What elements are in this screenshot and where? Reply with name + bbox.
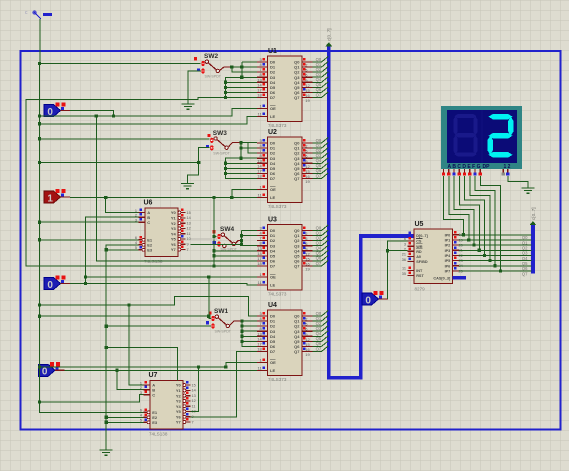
svg-text:0: 0 <box>42 367 48 378</box>
display inner <box>447 110 517 163</box>
U1 pin 1 OE <box>257 108 268 110</box>
wire U1 Q3 to bus <box>313 76 322 78</box>
svg-text:11: 11 <box>192 404 196 408</box>
U5 left pin CS <box>408 240 415 242</box>
7-segment display frame <box>441 106 522 169</box>
bus right of U5 vertical <box>531 225 535 274</box>
svg-text:19: 19 <box>305 179 310 184</box>
U1 pin 8 D3 <box>257 76 268 78</box>
svg-text:19: 19 <box>305 267 310 272</box>
wire to U7 A <box>129 305 144 385</box>
wire U5 IP3 row to bus <box>459 249 532 251</box>
probe pin <box>379 298 389 300</box>
U2 pin 6 Q2 <box>302 152 313 154</box>
svg-text:IP5: IP5 <box>445 259 451 263</box>
svg-text:15: 15 <box>192 383 196 387</box>
svg-text:SF/BD: SF/BD <box>416 260 428 264</box>
U2 pin 16 Q6 <box>302 172 313 174</box>
ground below SW2 <box>182 104 195 109</box>
U6 pin 10 Y5 <box>178 238 181 241</box>
svg-text:Y3: Y3 <box>171 226 177 231</box>
U6 pin 4 E2 <box>139 244 143 246</box>
U1 pin 5 Q1 <box>302 66 313 68</box>
trunk T3 down to U3 row17 <box>96 116 257 261</box>
switch SW4 common wire <box>236 241 242 244</box>
U4 pin 5 Q1 <box>302 320 313 322</box>
display pin E <box>464 169 466 172</box>
display pin B <box>448 169 450 172</box>
svg-text:Q7: Q7 <box>316 92 322 97</box>
U6 pin 3 C <box>139 221 146 223</box>
svg-text:CAS[0..3]: CAS[0..3] <box>433 277 451 281</box>
wire U5 IP5 row to bus <box>459 260 532 262</box>
wire T4 to U6 E3 <box>106 249 138 251</box>
U2 pin 2 Q0 <box>302 142 313 144</box>
wire SW3 net to U2 pins <box>241 142 257 144</box>
U7 pin 5 E3 <box>144 421 148 423</box>
display pin C <box>453 169 455 172</box>
wire U4 Q1 to bus <box>313 320 322 322</box>
svg-text:74LS138: 74LS138 <box>149 432 168 437</box>
wire T1 to SW3 throw <box>40 138 210 140</box>
svg-text:c[0..7]: c[0..7] <box>327 28 332 41</box>
U4 pin 9 Q3 <box>302 330 313 332</box>
wire long enable line to U4 OE <box>40 366 226 368</box>
U3 pin 15 Q5 <box>302 255 313 257</box>
svg-text:E3: E3 <box>152 420 158 425</box>
U3 pin 19 Q7 <box>302 265 313 267</box>
svg-text:OE: OE <box>270 106 276 111</box>
svg-text:C: C <box>147 220 150 225</box>
U4 pin 12 Q4 <box>302 335 313 337</box>
svg-text:LE: LE <box>270 195 275 200</box>
U7 pin 11 Y4 <box>183 405 186 408</box>
IC U4 74LS373 body <box>268 310 303 376</box>
U1 pin 9 Q3 <box>302 76 313 78</box>
wire T1 to U7 C <box>40 395 144 402</box>
U7 pin 13 Y2 <box>183 394 186 397</box>
svg-text:Y4: Y4 <box>171 231 177 236</box>
wire U2 Q1 to bus <box>313 147 322 149</box>
svg-text:74LS373: 74LS373 <box>268 123 287 128</box>
U6 pin 6 E1 <box>139 239 143 241</box>
svg-text:74LS373: 74LS373 <box>268 291 287 296</box>
bus arrow top <box>325 42 332 46</box>
U5 left pin WR <box>408 245 415 247</box>
U5 left pin INT <box>408 269 415 271</box>
wire U3 Q1 to bus <box>313 235 322 237</box>
wire display seg 2 staircase to U5 IP2 <box>454 176 474 245</box>
U3 pin 14 D5 <box>257 255 268 257</box>
U5 left pin SF/BD <box>408 261 415 263</box>
svg-text:74LS373: 74LS373 <box>268 204 287 209</box>
U7 pin 6 E1 <box>144 411 148 413</box>
wire riser to SW1 throw <box>209 277 211 318</box>
U2 pin 15 Q5 <box>302 167 313 169</box>
display pin A <box>443 169 445 172</box>
U2 pin 11 LE <box>257 197 268 199</box>
IC U3 74LS373 body <box>268 225 303 291</box>
SW4 lower throw terminal <box>223 244 226 247</box>
U6 pin 1 A <box>139 212 146 214</box>
logic state probe 1 <box>44 191 61 203</box>
U1 pin 17 D6 <box>257 91 268 93</box>
U2 pin 8 D3 <box>257 157 268 159</box>
svg-text:18: 18 <box>257 346 262 351</box>
U6 pin 14 Y1 <box>178 216 181 219</box>
wire display seg 6 staircase to U5 IP6 <box>475 176 495 266</box>
IC U6 74LS138 body <box>145 208 178 257</box>
display right digit lit 2 <box>489 114 513 119</box>
U2 pin 3 D0 <box>257 142 268 144</box>
svg-text:7: 7 <box>187 248 189 252</box>
U3 pin 4 D1 <box>257 235 268 237</box>
display pin D <box>458 169 460 172</box>
U3 pin 12 Q4 <box>302 250 313 252</box>
wire U2 Q3 to bus <box>313 157 322 159</box>
wire U1 Q5 to bus <box>313 86 322 88</box>
svg-text:IP6: IP6 <box>445 264 451 268</box>
wire U2 Q4 to bus <box>313 162 322 164</box>
U4 pin 2 Q0 <box>302 315 313 317</box>
U7 pin 4 E2 <box>144 416 148 418</box>
svg-text:Q7: Q7 <box>294 95 300 100</box>
U2 pin 5 Q1 <box>302 147 313 149</box>
svg-text:OE: OE <box>270 187 276 192</box>
wire U5 IP6 row to bus <box>459 265 532 267</box>
logic state probe 0 <box>362 293 379 305</box>
svg-text:U6: U6 <box>144 200 153 207</box>
svg-text:7: 7 <box>192 420 194 424</box>
wire SW2 net to U1 pins <box>232 66 257 68</box>
U5 right pin IP3 <box>453 249 460 251</box>
svg-text:RD: RD <box>416 250 422 254</box>
wire probe4 branch to U7 B <box>117 370 144 389</box>
svg-text:19: 19 <box>305 98 310 103</box>
U5 right pin IP4 <box>453 254 460 256</box>
U3 pin 8 D3 <box>257 245 268 247</box>
U3 pin 13 D4 <box>257 250 268 252</box>
wire U1 Q1 to bus <box>313 66 322 68</box>
display pin 2 (anode) <box>507 169 509 172</box>
wire SW4 net to U3 pins <box>240 239 243 242</box>
svg-text:18: 18 <box>257 173 262 178</box>
U4 pin 16 Q6 <box>302 345 313 347</box>
bus right arrow <box>530 221 537 225</box>
U6 pin 15 Y0 <box>178 211 181 214</box>
wire display seg 3 staircase to U5 IP3 <box>459 176 479 250</box>
U6 pin 12 Y3 <box>178 227 181 230</box>
svg-text:Q7: Q7 <box>522 271 528 276</box>
svg-text:Q7: Q7 <box>316 173 322 178</box>
svg-text:c[0..7]: c[0..7] <box>531 207 536 220</box>
U5 left pin A0 <box>408 256 415 258</box>
trunk T1 vertical <box>39 64 41 413</box>
svg-text:Y2: Y2 <box>171 221 177 226</box>
U7 pin 12 Y3 <box>183 399 186 402</box>
sheet border <box>21 51 561 430</box>
U3 pin 1 OE <box>257 276 268 278</box>
U5 right pin IP0 <box>453 234 460 236</box>
wire U5 IP0 row to bus <box>459 234 532 236</box>
U1 pin 3 D0 <box>257 61 268 63</box>
U1 pin 14 D5 <box>257 86 268 88</box>
wire U6 Y6 to SW4 trunk <box>191 243 242 245</box>
svg-text:D7: D7 <box>270 95 276 100</box>
svg-text:INT: INT <box>416 269 423 273</box>
svg-text:E3: E3 <box>147 247 153 252</box>
wire U5 IP1 row to bus <box>459 239 532 241</box>
U4 pin 6 Q2 <box>302 325 313 327</box>
U5 left pin RST <box>408 275 415 277</box>
svg-text:Y5: Y5 <box>176 409 182 414</box>
U3 pin 7 D2 <box>257 240 268 242</box>
U3 pin 6 Q2 <box>302 240 313 242</box>
U7 pin 3 C <box>144 394 151 396</box>
U5 left pin RD <box>408 250 415 252</box>
U2 pin 17 D6 <box>257 172 268 174</box>
U4 pin 14 D5 <box>257 340 268 342</box>
svg-text:CS: CS <box>416 240 422 244</box>
wire U2 Q5 to bus <box>313 167 322 169</box>
U2 pin 19 Q7 <box>302 177 313 179</box>
svg-text:Q7: Q7 <box>294 264 300 269</box>
wire U7 Y5 riser <box>191 367 199 412</box>
svg-text:IP2: IP2 <box>445 244 451 248</box>
svg-text:U2: U2 <box>268 129 277 136</box>
IC U2 74LS373 body <box>268 137 303 203</box>
svg-text:OE: OE <box>270 360 276 365</box>
U1 pin 2 Q0 <box>302 61 313 63</box>
svg-text:Y7: Y7 <box>171 247 177 252</box>
svg-text:0: 0 <box>365 295 371 306</box>
svg-text:Y2: Y2 <box>176 393 182 398</box>
U4 pin 13 D4 <box>257 335 268 337</box>
U1 pin 13 D4 <box>257 81 268 83</box>
svg-text:Y4: Y4 <box>176 404 182 409</box>
U1 pin 4 D1 <box>257 66 268 68</box>
wire SW1 lower throw to T4 ground net <box>106 325 211 327</box>
svg-text:SW3: SW3 <box>213 130 227 137</box>
svg-text:IP0: IP0 <box>445 233 451 237</box>
switch SW4 markers <box>213 230 216 233</box>
svg-text:35: 35 <box>402 272 406 276</box>
svg-text:Y1: Y1 <box>171 215 177 220</box>
U7 pin 15 Y0 <box>183 384 186 387</box>
wire U3 Q6 to bus <box>313 260 322 262</box>
U2 pin 9 Q3 <box>302 157 313 159</box>
switch SW3 markers <box>208 134 211 137</box>
wire T1 to U1 LE <box>40 117 257 124</box>
logic state probe 0 <box>44 278 61 290</box>
wire clock to trunk T1 <box>39 19 41 64</box>
trunk T4 ground net <box>106 245 138 450</box>
wire T1 to U6 E1 <box>40 239 139 241</box>
U3 pin 16 Q6 <box>302 260 313 262</box>
wire U2 Q7 to bus <box>313 177 322 179</box>
svg-text:RST: RST <box>416 274 424 278</box>
wire display pin2 to ground <box>508 176 528 188</box>
wire U4 Q0 to bus <box>313 315 322 317</box>
IC U7 74LS138 body <box>150 381 183 430</box>
wire T1 to U7 E1 <box>40 402 144 412</box>
bus c[0..7] main vertical <box>329 47 414 378</box>
svg-text:C: C <box>152 392 155 397</box>
wire U5 IP7 row to bus <box>459 270 532 272</box>
U5 right pin IP5 <box>453 260 460 262</box>
svg-text:U4: U4 <box>268 302 277 309</box>
wire U1 Q6 to bus <box>313 91 322 93</box>
wire U1 Q0 to bus <box>313 61 322 63</box>
wire U5 CS RD from green net <box>388 241 408 299</box>
display pin 1 (anode) <box>502 169 504 172</box>
wire U2 lower nibble trunk <box>226 158 257 178</box>
wire T1 OE line to U1 OE <box>40 109 257 117</box>
svg-text:19: 19 <box>305 352 310 357</box>
wire T4 branch to U7 top <box>106 348 177 381</box>
svg-text:Y1: Y1 <box>176 388 182 393</box>
svg-text:WR: WR <box>416 245 423 249</box>
svg-text:A0: A0 <box>416 255 421 259</box>
wire U1 Q2 to bus <box>313 71 322 73</box>
U2 pin 18 D7 <box>257 177 268 179</box>
ground bottom left <box>100 450 113 455</box>
wire U4 Q7 to bus <box>313 350 322 352</box>
wire probe3 to U3 LE <box>70 284 257 285</box>
wire display seg 1 staircase to U5 IP1 <box>449 176 469 240</box>
wire U3 Q2 to bus <box>313 240 322 242</box>
wire display seg 7 staircase to U5 IP7 <box>480 176 500 271</box>
wire U4 Q2 to bus <box>313 325 322 327</box>
svg-text:11: 11 <box>187 232 191 236</box>
svg-text:8279: 8279 <box>415 287 426 292</box>
wire probe4 to U4 LE <box>65 369 257 371</box>
wire U7 Y6 to U4 row18 <box>191 351 257 416</box>
svg-text:0: 0 <box>47 280 53 291</box>
U1 pin 19 Q7 <box>302 96 313 98</box>
svg-text:SW-SPDT: SW-SPDT <box>215 330 232 334</box>
switch SW2 markers <box>194 57 197 60</box>
U3 pin 17 D6 <box>257 260 268 262</box>
U7 pin 1 A <box>144 384 151 386</box>
U4 pin 7 D2 <box>257 325 268 327</box>
wire U3 Q4 to bus <box>313 250 322 252</box>
U1 pin 7 D2 <box>257 71 268 73</box>
svg-text:U5: U5 <box>415 221 424 228</box>
switch SW2 common wire <box>220 67 232 70</box>
wire T1 to U6 C <box>40 221 139 223</box>
U1 pin 16 Q6 <box>302 91 313 93</box>
wire T4 to U7 E3 <box>106 421 143 423</box>
wire T4 to U7 E2 <box>106 416 143 418</box>
U7 pin 14 Y1 <box>183 389 186 392</box>
probe pin <box>55 369 65 371</box>
svg-text:13: 13 <box>192 394 196 398</box>
wire U3 Q3 to bus <box>313 245 322 247</box>
U4 pin 11 LE <box>257 370 268 372</box>
logic state probe 0 <box>44 105 61 117</box>
U1 pin 6 Q2 <box>302 71 313 73</box>
U4 pin 8 D3 <box>257 330 268 332</box>
svg-text:SW1: SW1 <box>214 308 228 315</box>
svg-text:OE: OE <box>270 275 276 280</box>
svg-text:18: 18 <box>257 92 262 97</box>
wire T5/T2 row18 to U3 <box>214 265 257 267</box>
svg-text:Y6: Y6 <box>176 414 182 419</box>
logic state probe 0 <box>39 364 56 376</box>
probe pin <box>61 110 71 112</box>
U4 pin 1 OE <box>257 362 268 364</box>
wire U5 IP2 row to bus <box>459 244 532 246</box>
svg-text:13: 13 <box>187 221 191 225</box>
wire branch to U2 OE <box>232 190 257 198</box>
switch SW3 common wire <box>229 143 242 147</box>
svg-text:15: 15 <box>187 211 191 215</box>
display pin G <box>474 169 476 172</box>
wire T5 to U3 pins 13 14 <box>214 250 257 252</box>
wire U3 Q0 to bus <box>313 230 322 232</box>
svg-text:9: 9 <box>187 242 189 246</box>
U3 pin 3 D0 <box>257 230 268 232</box>
svg-text:Q7: Q7 <box>316 261 322 266</box>
wire probe2 net <box>70 197 247 199</box>
ground below SW3 <box>181 184 194 189</box>
gray floating wire U6 Y5 to SW4 <box>191 238 218 240</box>
U4 pin 17 D6 <box>257 345 268 347</box>
svg-text:SW-SPDT: SW-SPDT <box>213 152 230 156</box>
svg-text:36: 36 <box>402 258 406 262</box>
svg-text:SW4: SW4 <box>220 226 234 233</box>
display pin DP <box>479 169 481 172</box>
U1 pin 15 Q5 <box>302 86 313 88</box>
U1 pin 18 D7 <box>257 96 268 98</box>
wire U2 Q0 to bus <box>313 142 322 144</box>
wire U5 IP4 row to bus <box>459 254 532 256</box>
U1 pin 12 Q4 <box>302 81 313 83</box>
wire U4 Q4 to bus <box>313 335 322 337</box>
U5 right pin IP7 <box>453 270 460 272</box>
wire SW2 lower throw to ground <box>188 71 201 104</box>
svg-text:10: 10 <box>187 237 191 241</box>
probe pin <box>61 283 71 285</box>
U3 pin 5 Q1 <box>302 235 313 237</box>
IC U5 8279 body <box>414 229 453 284</box>
svg-text:1: 1 <box>47 193 53 204</box>
wire display seg 0 staircase to U5 IP0 <box>444 176 464 235</box>
U4 pin 15 Q5 <box>302 340 313 342</box>
svg-text:1 2: 1 2 <box>504 164 511 170</box>
svg-text:LE: LE <box>270 283 275 288</box>
wire U4 Q5 to bus <box>313 340 322 342</box>
svg-text:18: 18 <box>257 261 262 266</box>
display left digit (unlit 8) <box>455 114 477 118</box>
switch SW1 common wire <box>230 321 242 325</box>
svg-text:Y3: Y3 <box>176 399 182 404</box>
U6 pin 9 Y6 <box>178 243 181 246</box>
U6 pin 2 B <box>139 216 146 218</box>
U4 pin 19 Q7 <box>302 350 313 352</box>
svg-text:D7: D7 <box>270 264 276 269</box>
svg-text:U3: U3 <box>268 217 277 224</box>
wire riser to U6 B <box>86 217 139 283</box>
wire T1 to SW3 ground branch <box>40 161 199 163</box>
svg-text:74LS373: 74LS373 <box>268 377 287 382</box>
U7 pin 10 Y5 <box>183 410 186 413</box>
U7 pin 9 Y6 <box>183 415 186 418</box>
wire U2 Q2 to bus <box>313 152 322 154</box>
wire T1 data line y316 <box>40 315 209 317</box>
svg-text:Q7: Q7 <box>294 176 300 181</box>
